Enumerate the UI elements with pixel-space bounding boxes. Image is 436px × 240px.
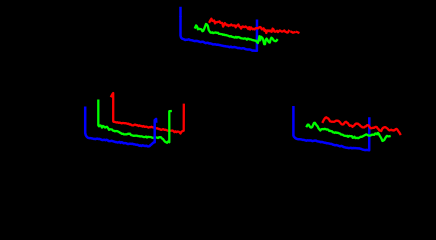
blue band light curve panel1 pre-gap ingress	[179, 8, 182, 16]
red band light curve panel2 eclipse bathtub	[111, 93, 184, 133]
green band light curve panel1	[195, 24, 277, 44]
blue band light curve panel1 eclipse profile	[181, 17, 258, 51]
red band light curve panel1 tail blob1	[291, 31, 294, 34]
red band light curve panel1 tail blob2	[297, 31, 298, 34]
blue band light curve panel3 eclipse bathtub	[293, 107, 369, 150]
red band light curve panel3	[323, 117, 400, 134]
blue band light curve panel2 eclipse bathtub	[85, 108, 156, 147]
green band light curve panel2 eclipse bathtub	[98, 101, 170, 143]
chart: three-panel X-ray binary eclipse light curves, black background	[0, 0, 436, 189]
red band light curve panel1	[210, 19, 289, 33]
green band light curve panel3	[307, 123, 390, 141]
